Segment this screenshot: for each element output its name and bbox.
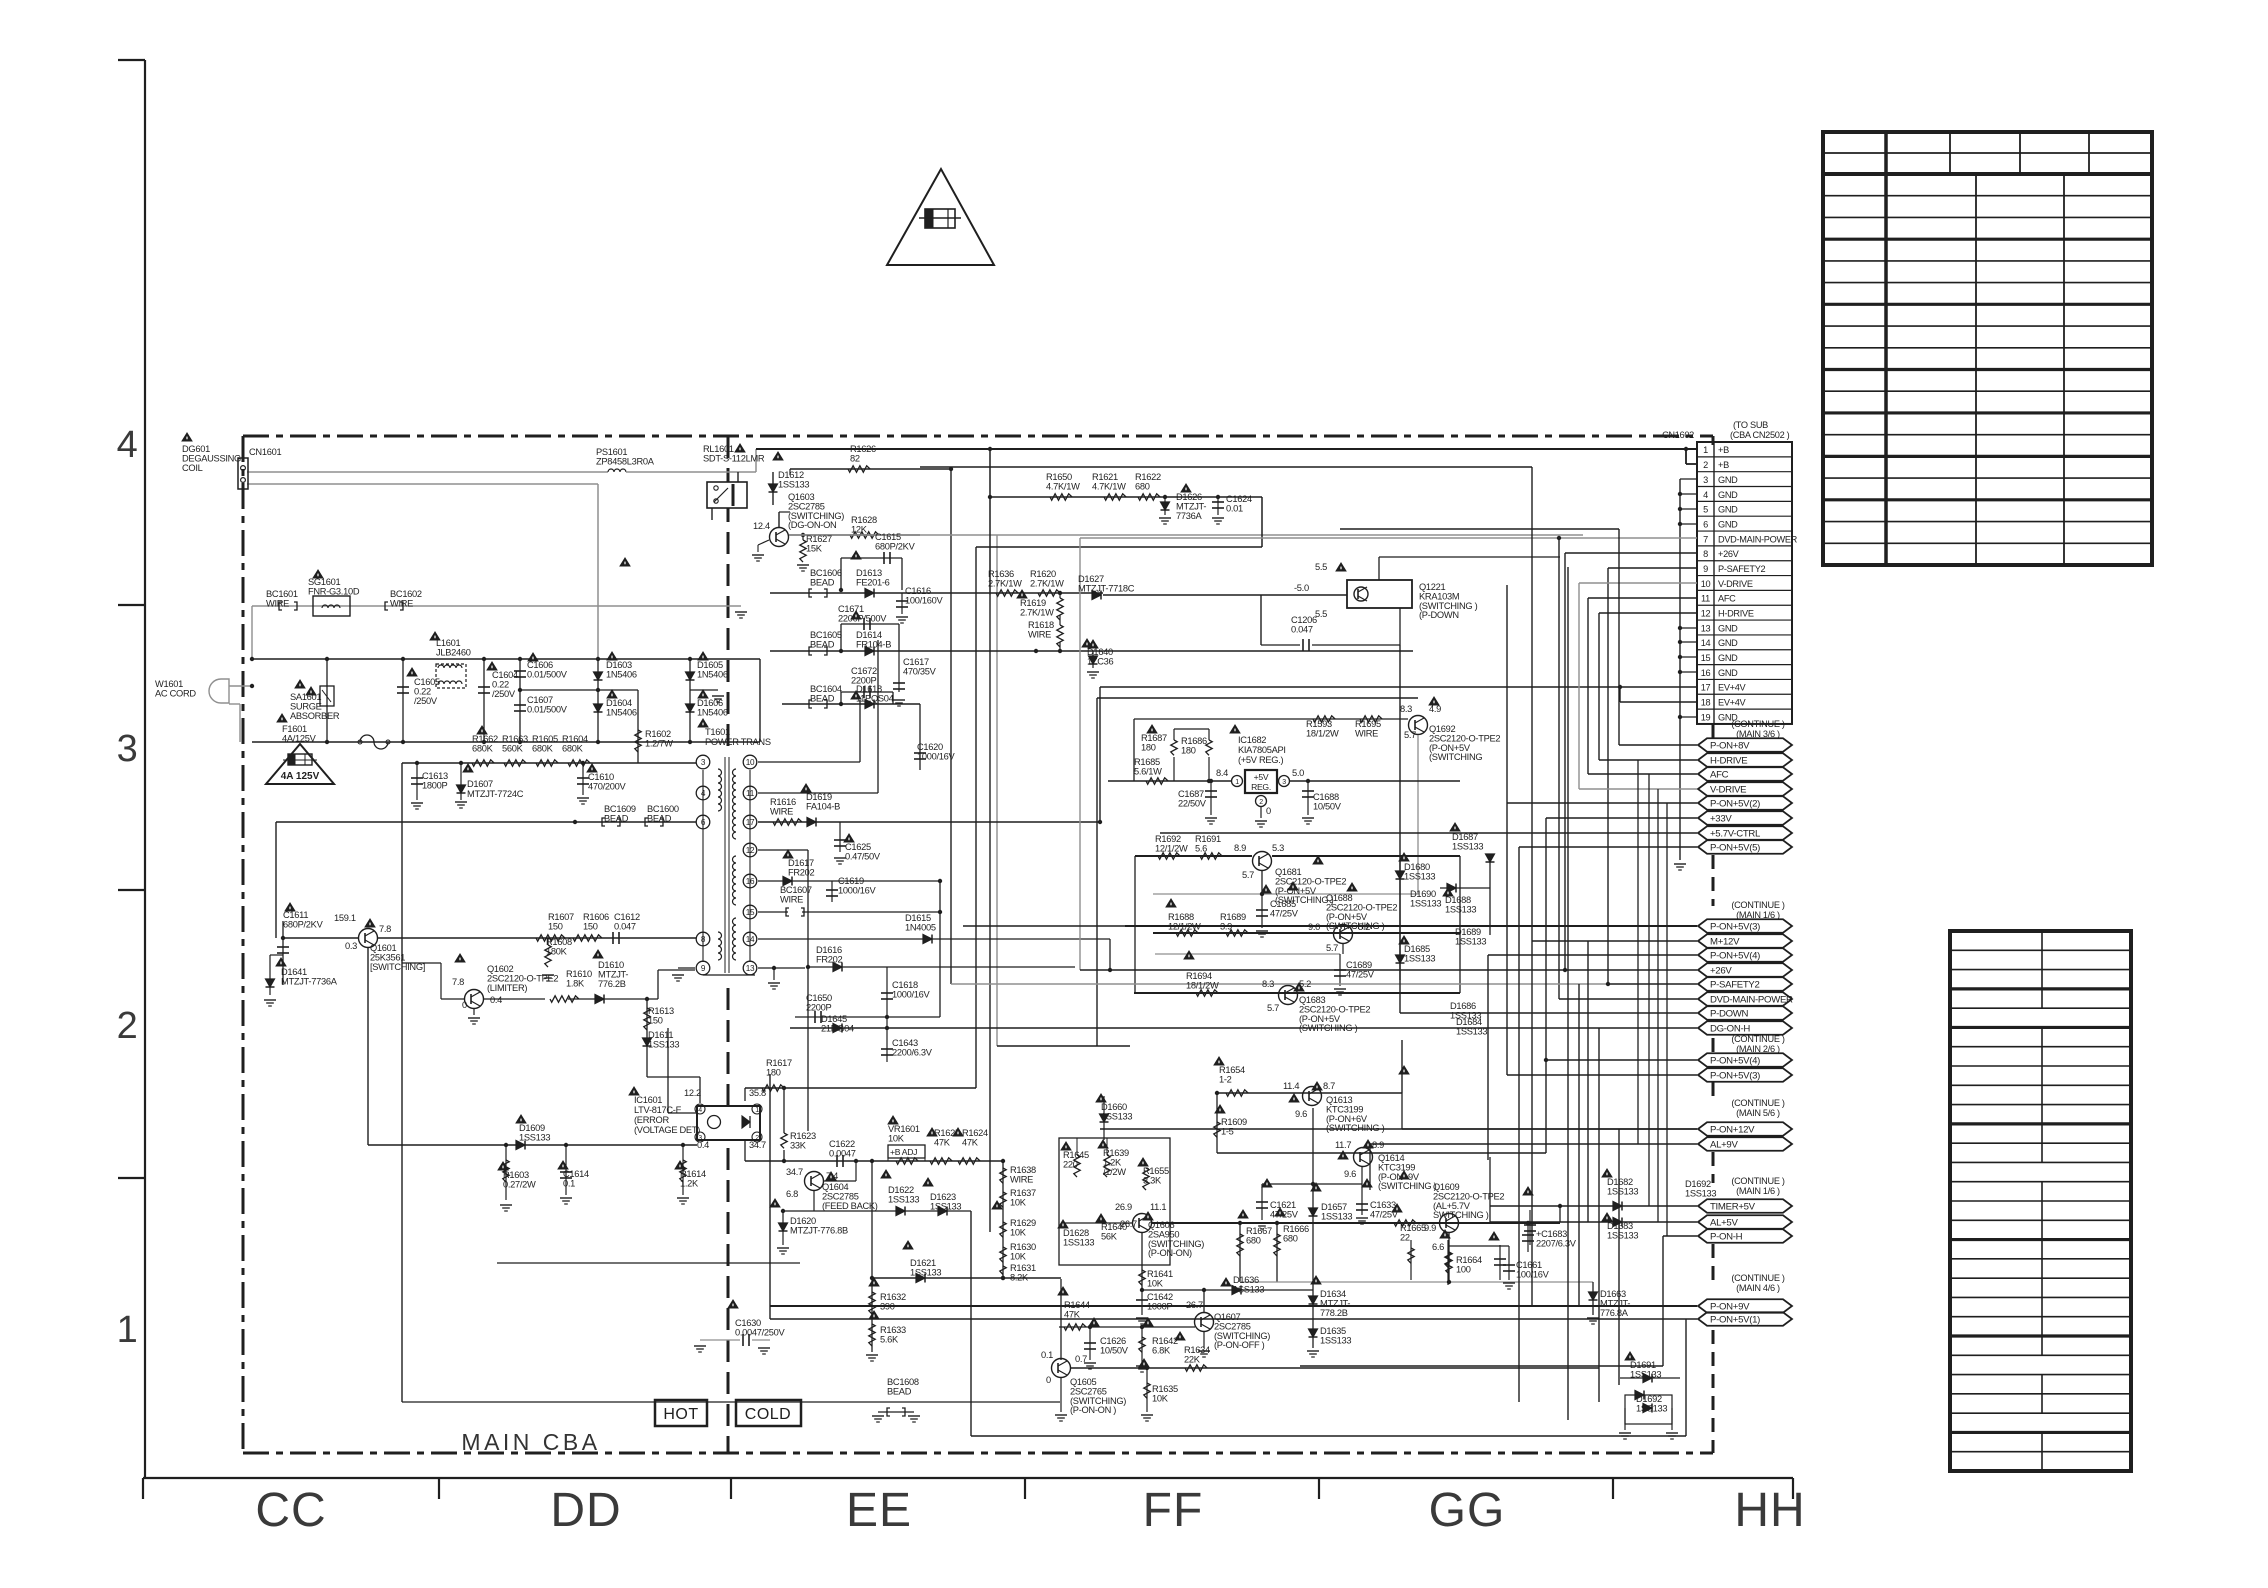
svg-text:1N5406: 1N5406 [606, 707, 637, 717]
svg-text:(CONTINUE ): (CONTINUE ) [1731, 1098, 1785, 1108]
svg-text:0.7: 0.7 [1075, 1354, 1087, 1364]
svg-text:560K: 560K [502, 743, 524, 753]
svg-text:150: 150 [648, 1015, 663, 1025]
svg-text:680: 680 [1283, 1233, 1298, 1243]
svg-text:3.3K: 3.3K [1143, 1175, 1162, 1185]
svg-text:11.1: 11.1 [1150, 1202, 1166, 1212]
svg-text:26.9: 26.9 [1115, 1202, 1132, 1212]
svg-text:10K: 10K [888, 1133, 905, 1143]
svg-text:8.2K: 8.2K [1010, 1272, 1029, 1282]
svg-text:1SS133: 1SS133 [1101, 1111, 1132, 1121]
svg-text:(DG-ON-ON: (DG-ON-ON [788, 520, 836, 530]
svg-text:1SS133: 1SS133 [910, 1267, 941, 1277]
svg-text:GND: GND [1718, 490, 1738, 500]
svg-text:18/1/2W: 18/1/2W [1306, 728, 1339, 738]
svg-text:WIRE: WIRE [1028, 629, 1051, 639]
svg-text:WIRE: WIRE [780, 894, 803, 904]
svg-text:M+12V: M+12V [1710, 936, 1740, 947]
svg-text:1SS133: 1SS133 [1404, 871, 1435, 881]
svg-text:680K: 680K [532, 743, 554, 753]
svg-text:+5.7V-CTRL: +5.7V-CTRL [1710, 828, 1761, 839]
svg-text:GND: GND [1718, 475, 1738, 485]
svg-text:1000P: 1000P [1147, 1301, 1172, 1311]
svg-text:1SS133: 1SS133 [1404, 953, 1435, 963]
svg-text:5.6: 5.6 [1195, 843, 1207, 853]
svg-text:1SS133: 1SS133 [1456, 1026, 1487, 1036]
svg-text:8.3: 8.3 [1400, 704, 1412, 714]
svg-text:4: 4 [117, 424, 138, 466]
svg-text:6.8K: 6.8K [1152, 1345, 1171, 1355]
svg-text:1SS133: 1SS133 [1607, 1230, 1638, 1240]
svg-text:DVD-MAIN-POWER: DVD-MAIN-POWER [1710, 994, 1793, 1005]
svg-text:(P-DOWN: (P-DOWN [1419, 610, 1459, 620]
svg-text:778.2B: 778.2B [1320, 1308, 1348, 1318]
svg-text:FR202: FR202 [816, 954, 843, 964]
svg-text:56K: 56K [1101, 1231, 1118, 1241]
svg-text:AFC: AFC [1718, 594, 1736, 604]
svg-text:10K: 10K [1010, 1197, 1027, 1207]
svg-text:BEAD: BEAD [810, 693, 835, 703]
svg-text:9.0: 9.0 [1308, 922, 1320, 932]
svg-text:11: 11 [1701, 594, 1710, 604]
svg-text:BEAD: BEAD [604, 813, 629, 823]
svg-text:10: 10 [746, 758, 755, 767]
svg-text:MTZJT-7736A: MTZJT-7736A [281, 976, 338, 986]
svg-text:1N4005: 1N4005 [905, 922, 936, 932]
svg-text:776.2B: 776.2B [598, 979, 626, 989]
svg-text:19: 19 [1701, 712, 1711, 722]
svg-text:CN1602: CN1602 [1662, 430, 1694, 440]
svg-text:12.4: 12.4 [753, 521, 770, 531]
svg-text:GND: GND [1718, 653, 1738, 663]
svg-text:10/50V: 10/50V [1313, 801, 1342, 811]
svg-text:FR104-B: FR104-B [856, 639, 891, 649]
svg-text:0: 0 [1046, 1375, 1051, 1385]
svg-text:(FEED BACK): (FEED BACK) [822, 1201, 878, 1211]
svg-text:(SWITCHING ): (SWITCHING ) [1326, 921, 1385, 931]
svg-text:/250V: /250V [492, 689, 516, 699]
svg-text:5.3: 5.3 [1272, 843, 1284, 853]
svg-text:AFC: AFC [1710, 769, 1729, 780]
svg-text:47K: 47K [934, 1137, 951, 1147]
svg-text:18/1/2W: 18/1/2W [1186, 980, 1219, 990]
svg-text:1000/16V: 1000/16V [917, 751, 956, 761]
svg-text:BEAD: BEAD [887, 1386, 912, 1396]
svg-text:34.7: 34.7 [749, 1140, 766, 1150]
svg-text:(SWITCHING: (SWITCHING [1429, 752, 1482, 762]
svg-text:1SS133: 1SS133 [1445, 904, 1476, 914]
svg-text:1000/16V: 1000/16V [838, 885, 877, 895]
svg-text:6.8: 6.8 [786, 1189, 798, 1199]
svg-text:(CBA CN2502 ): (CBA CN2502 ) [1730, 430, 1790, 440]
svg-text:12: 12 [1701, 608, 1711, 618]
svg-text:JLB2460: JLB2460 [436, 647, 471, 657]
svg-text:1SS133: 1SS133 [888, 1194, 919, 1204]
svg-text:SWITCHING ): SWITCHING ) [1433, 1210, 1489, 1220]
svg-text:8.7: 8.7 [1323, 1081, 1335, 1091]
svg-text:(CONTINUE ): (CONTINUE ) [1731, 1273, 1785, 1283]
svg-text:EV+4V: EV+4V [1718, 683, 1747, 693]
svg-text:35.8: 35.8 [749, 1088, 766, 1098]
svg-text:680P/2KV: 680P/2KV [875, 541, 916, 551]
svg-text:+26V: +26V [1710, 965, 1732, 976]
svg-text:LTV-817C-F: LTV-817C-F [634, 1105, 682, 1115]
svg-text:5: 5 [1703, 505, 1708, 515]
svg-text:5.5: 5.5 [1315, 562, 1327, 572]
svg-text:[SWITCHING]: [SWITCHING] [370, 962, 425, 972]
svg-text:0.0047/250V: 0.0047/250V [735, 1327, 786, 1337]
svg-text:0.1: 0.1 [563, 1178, 575, 1188]
svg-text:0.3: 0.3 [345, 941, 357, 951]
svg-text:680K: 680K [562, 743, 584, 753]
svg-text:11.4: 11.4 [1283, 1081, 1299, 1091]
svg-text:0: 0 [462, 1000, 467, 1010]
svg-text:1N5406: 1N5406 [606, 669, 637, 679]
svg-text:33K: 33K [790, 1140, 807, 1150]
svg-text:P-ON+5V(2): P-ON+5V(2) [1710, 798, 1760, 809]
svg-text:BEAD: BEAD [647, 813, 672, 823]
svg-text:47/25V: 47/25V [1270, 908, 1299, 918]
svg-text:DG-ON-H: DG-ON-H [1710, 1023, 1750, 1034]
svg-text:IC1601: IC1601 [634, 1095, 662, 1105]
svg-text:FNR-G3.10D: FNR-G3.10D [308, 586, 360, 596]
svg-text:(SWITCHING ): (SWITCHING ) [1299, 1023, 1358, 1033]
svg-text:CN1601: CN1601 [249, 447, 281, 457]
svg-text:/250V: /250V [414, 696, 438, 706]
svg-text:0.047: 0.047 [614, 921, 636, 931]
svg-text:(CONTINUE ): (CONTINUE ) [1731, 1176, 1785, 1186]
svg-text:(CONTINUE ): (CONTINUE ) [1731, 900, 1785, 910]
svg-text:0.01/500V: 0.01/500V [527, 704, 568, 714]
svg-text:2200P: 2200P [806, 1002, 831, 1012]
svg-text:WIRE: WIRE [390, 598, 413, 608]
svg-text:1SS133: 1SS133 [1607, 1186, 1638, 1196]
svg-text:22/50V: 22/50V [1178, 798, 1207, 808]
svg-text:1SS133: 1SS133 [1455, 936, 1486, 946]
svg-text:IC1682: IC1682 [1238, 735, 1266, 745]
svg-text:P-SAFETY2: P-SAFETY2 [1710, 979, 1760, 990]
svg-text:1: 1 [1703, 445, 1708, 455]
svg-text:1SS133: 1SS133 [519, 1132, 550, 1142]
svg-text:KIA7805API: KIA7805API [1238, 745, 1286, 755]
svg-text:0.1: 0.1 [1041, 1350, 1053, 1360]
svg-text:3: 3 [701, 758, 706, 767]
svg-text:1-5: 1-5 [1221, 1126, 1234, 1136]
svg-text:26.7: 26.7 [1186, 1300, 1203, 1310]
svg-text:WIRE: WIRE [266, 598, 289, 608]
svg-text:D1607: D1607 [467, 779, 493, 789]
svg-text:4.7K/1W: 4.7K/1W [1092, 481, 1126, 491]
svg-text:GND: GND [1718, 505, 1738, 515]
svg-text:FA104-B: FA104-B [806, 801, 840, 811]
svg-text:5.2: 5.2 [1358, 922, 1370, 932]
svg-text:REG.: REG. [1251, 782, 1271, 792]
svg-text:9.6: 9.6 [1344, 1169, 1356, 1179]
svg-text:(MAIN 4/6 ): (MAIN 4/6 ) [1736, 1283, 1780, 1293]
svg-text:0.47/50V: 0.47/50V [845, 851, 881, 861]
svg-text:5.7: 5.7 [1267, 1003, 1279, 1013]
svg-text:1SS133: 1SS133 [1452, 841, 1483, 851]
svg-text:HH: HH [1734, 1484, 1805, 1537]
svg-text:TIMER+5V: TIMER+5V [1710, 1201, 1756, 1212]
svg-text:7.8: 7.8 [452, 977, 464, 987]
svg-text:SDT-S-112LMR: SDT-S-112LMR [703, 453, 765, 463]
svg-text:47K: 47K [1064, 1309, 1081, 1319]
svg-text:P-ON+9V: P-ON+9V [1710, 1301, 1750, 1312]
svg-text:(CONTINUE ): (CONTINUE ) [1731, 1034, 1785, 1044]
svg-text:+5V: +5V [1254, 772, 1269, 782]
svg-text:12K: 12K [851, 524, 868, 534]
svg-text:P-ON+5V(4): P-ON+5V(4) [1710, 1055, 1760, 1066]
svg-text:(ERROR: (ERROR [634, 1115, 669, 1125]
svg-text:2: 2 [117, 1005, 138, 1047]
svg-text:P-ON+5V(3): P-ON+5V(3) [1710, 1070, 1760, 1081]
svg-text:150: 150 [583, 921, 598, 931]
svg-text:2200P/500V: 2200P/500V [838, 613, 887, 623]
svg-text:P-ON-H: P-ON-H [1710, 1231, 1743, 1242]
svg-text:GND: GND [1718, 668, 1738, 678]
svg-text:100/16V: 100/16V [1516, 1269, 1550, 1279]
svg-text:+B: +B [1718, 445, 1729, 455]
svg-text:10K: 10K [1010, 1251, 1027, 1261]
svg-text:(MAIN 1/6 ): (MAIN 1/6 ) [1736, 1186, 1780, 1196]
svg-text:2: 2 [1703, 460, 1708, 470]
svg-text:15: 15 [1701, 653, 1711, 663]
svg-text:1800P: 1800P [422, 780, 447, 790]
svg-text:MTZJT-7718C: MTZJT-7718C [1078, 583, 1135, 593]
svg-text:5.7: 5.7 [1326, 943, 1338, 953]
svg-text:P-ON+5V(5): P-ON+5V(5) [1710, 842, 1760, 853]
svg-text:GND: GND [1718, 638, 1738, 648]
svg-text:2.7K/1W: 2.7K/1W [1030, 578, 1064, 588]
svg-text:18: 18 [1701, 698, 1711, 708]
svg-text:680: 680 [1246, 1235, 1261, 1245]
svg-text:COIL: COIL [182, 463, 203, 473]
svg-text:34.7: 34.7 [786, 1167, 803, 1177]
svg-text:11.7: 11.7 [1335, 1140, 1351, 1150]
svg-text:16: 16 [1701, 668, 1711, 678]
svg-text:3.9: 3.9 [1220, 921, 1232, 931]
svg-text:P-ON+8V: P-ON+8V [1710, 740, 1750, 751]
svg-text:1.2/7W: 1.2/7W [645, 738, 673, 748]
svg-text:P-DOWN: P-DOWN [1710, 1008, 1749, 1019]
svg-text:10: 10 [1701, 579, 1711, 589]
svg-text:5.0: 5.0 [1292, 768, 1304, 778]
svg-text:ABSORBER: ABSORBER [290, 711, 340, 721]
svg-text:17: 17 [1701, 683, 1711, 693]
svg-text:4: 4 [698, 1107, 702, 1114]
svg-text:(CONTINUE ): (CONTINUE ) [1731, 719, 1785, 729]
svg-text:2207/6.3V: 2207/6.3V [1536, 1238, 1577, 1248]
svg-text:150: 150 [548, 921, 563, 931]
svg-text:10/50V: 10/50V [1100, 1345, 1129, 1355]
svg-text:1ZC36: 1ZC36 [1087, 656, 1114, 666]
svg-text:14: 14 [1701, 638, 1711, 648]
svg-text:(+5V REG.): (+5V REG.) [1238, 755, 1284, 765]
svg-text:MTZJT-7724C: MTZJT-7724C [467, 789, 524, 799]
svg-text:-5.0: -5.0 [1294, 583, 1309, 593]
svg-text:4.7K/1W: 4.7K/1W [1046, 481, 1080, 491]
svg-text:EV+4V: EV+4V [1718, 698, 1747, 708]
svg-text:AL+9V: AL+9V [1710, 1139, 1738, 1150]
svg-text:6.6: 6.6 [1432, 1242, 1444, 1252]
svg-text:12/1/2W: 12/1/2W [1168, 921, 1201, 931]
svg-text:180: 180 [766, 1067, 781, 1077]
svg-text:GND: GND [1718, 519, 1738, 529]
svg-text:680: 680 [1135, 481, 1150, 491]
svg-text:10K: 10K [1152, 1393, 1169, 1403]
svg-text:CC: CC [255, 1484, 326, 1537]
svg-text:1.8K: 1.8K [566, 978, 585, 988]
svg-text:8.4: 8.4 [1216, 768, 1228, 778]
svg-text:3: 3 [1703, 475, 1708, 485]
svg-text:ZP8458L3R0A: ZP8458L3R0A [596, 456, 655, 466]
svg-text:+B: +B [1718, 460, 1729, 470]
svg-text:(MAIN 5/6 ): (MAIN 5/6 ) [1736, 1108, 1780, 1118]
svg-text:13: 13 [746, 964, 755, 973]
svg-text:P-ON+5V(3): P-ON+5V(3) [1710, 921, 1760, 932]
svg-text:3: 3 [1282, 779, 1286, 786]
svg-text:P-ON+12V: P-ON+12V [1710, 1124, 1755, 1135]
svg-text:8.3: 8.3 [1262, 979, 1274, 989]
svg-text:P-SAFETY2: P-SAFETY2 [1718, 564, 1766, 574]
svg-text:(VOLTAGE DET): (VOLTAGE DET) [634, 1125, 700, 1135]
svg-text:1SS133: 1SS133 [1636, 1403, 1667, 1413]
svg-text:WIRE: WIRE [1355, 728, 1378, 738]
svg-text:159.1: 159.1 [334, 913, 356, 923]
svg-text:BEAD: BEAD [810, 639, 835, 649]
svg-text:0.047: 0.047 [1291, 624, 1313, 634]
svg-text:1SS133: 1SS133 [930, 1201, 961, 1211]
svg-text:4A/125V: 4A/125V [282, 733, 317, 743]
svg-text:9.9: 9.9 [1424, 1223, 1436, 1233]
svg-text:22K: 22K [1184, 1354, 1201, 1364]
svg-text:(SWITCHING ): (SWITCHING ) [1326, 1123, 1385, 1133]
svg-text:H-DRIVE: H-DRIVE [1710, 755, 1747, 766]
svg-text:220: 220 [1063, 1159, 1078, 1169]
svg-text:AL+5V: AL+5V [1710, 1217, 1738, 1228]
svg-text:9: 9 [701, 964, 706, 973]
svg-text:1N5406: 1N5406 [697, 669, 728, 679]
svg-text:3: 3 [117, 728, 138, 770]
svg-text:8: 8 [1703, 549, 1708, 559]
svg-text:HOT: HOT [663, 1406, 698, 1423]
svg-text:1SS133: 1SS133 [1321, 1211, 1352, 1221]
svg-text:0.27/2W: 0.27/2W [503, 1179, 536, 1189]
svg-text:1: 1 [117, 1309, 138, 1351]
svg-text:/1/2W: /1/2W [1103, 1167, 1126, 1177]
svg-text:9.6: 9.6 [1295, 1109, 1307, 1119]
svg-text:2: 2 [1259, 799, 1263, 806]
svg-text:FE201-6: FE201-6 [856, 577, 890, 587]
svg-text:1SS133: 1SS133 [778, 479, 809, 489]
svg-text:5.7: 5.7 [1242, 870, 1254, 880]
svg-text:1SS133: 1SS133 [1410, 898, 1441, 908]
svg-text:470/200V: 470/200V [588, 781, 627, 791]
svg-text:5.7: 5.7 [1404, 730, 1416, 740]
svg-text:180K: 180K [546, 946, 568, 956]
svg-text:9: 9 [1703, 564, 1708, 574]
svg-text:0.01: 0.01 [1226, 503, 1243, 513]
svg-text:V-DRIVE: V-DRIVE [1718, 579, 1753, 589]
svg-text:+33V: +33V [1710, 813, 1732, 824]
svg-text:(P-ON-ON ): (P-ON-ON ) [1070, 1405, 1116, 1415]
svg-text:10K: 10K [1010, 1227, 1027, 1237]
svg-text:776.8A: 776.8A [1600, 1308, 1629, 1318]
svg-text:(LIMITER): (LIMITER) [487, 983, 527, 993]
svg-text:680P/2KV: 680P/2KV [283, 919, 324, 929]
svg-text:1SS133: 1SS133 [648, 1039, 679, 1049]
svg-text:13: 13 [1701, 623, 1711, 633]
svg-text:BEAD: BEAD [810, 577, 835, 587]
svg-text:0.0047: 0.0047 [829, 1148, 856, 1158]
svg-text:DD: DD [550, 1484, 621, 1537]
svg-text:P-ON+5V(1): P-ON+5V(1) [1710, 1314, 1760, 1325]
svg-text:0.4: 0.4 [490, 995, 502, 1005]
svg-text:1SS133: 1SS133 [1063, 1237, 1094, 1247]
svg-text:8.9: 8.9 [1234, 843, 1246, 853]
svg-text:(P-ON-OFF ): (P-ON-OFF ) [1214, 1340, 1265, 1350]
svg-text:COLD: COLD [745, 1406, 791, 1423]
svg-text:7.8: 7.8 [379, 924, 391, 934]
svg-text:390: 390 [880, 1301, 895, 1311]
svg-text:7: 7 [1703, 534, 1708, 544]
svg-text:47/25V: 47/25V [1346, 969, 1375, 979]
svg-text:H-DRIVE: H-DRIVE [1718, 608, 1754, 618]
svg-text:GND: GND [1718, 623, 1738, 633]
svg-text:0: 0 [1266, 806, 1271, 816]
svg-text:82: 82 [850, 453, 860, 463]
svg-text:1SS133: 1SS133 [1233, 1284, 1264, 1294]
svg-text:180: 180 [1141, 742, 1156, 752]
svg-text:(TO SUB: (TO SUB [1733, 420, 1768, 430]
svg-text:WIRE: WIRE [1010, 1174, 1033, 1184]
svg-text:1000/16V: 1000/16V [892, 989, 931, 999]
svg-text:11EQS04: 11EQS04 [856, 693, 894, 703]
svg-text:MAIN CBA: MAIN CBA [461, 1429, 600, 1455]
svg-text:V-DRIVE: V-DRIVE [1710, 784, 1746, 795]
svg-text:1.2K: 1.2K [680, 1178, 699, 1188]
svg-text:T1601: T1601 [705, 727, 730, 737]
svg-text:1: 1 [755, 1107, 759, 1114]
svg-text:6: 6 [1703, 519, 1708, 529]
svg-text:2200/6.3V: 2200/6.3V [892, 1047, 933, 1057]
svg-text:15K: 15K [806, 543, 823, 553]
svg-text:(P-ON-ON): (P-ON-ON) [1148, 1248, 1192, 1258]
svg-text:1N5406: 1N5406 [697, 707, 728, 717]
svg-text:1SS133: 1SS133 [1320, 1335, 1351, 1345]
svg-text:4: 4 [1703, 490, 1708, 500]
svg-text:1: 1 [1235, 779, 1239, 786]
svg-text:FR202: FR202 [788, 867, 815, 877]
svg-text:FF: FF [1143, 1484, 1204, 1537]
svg-text:+26V: +26V [1718, 549, 1740, 559]
svg-text:5.6K: 5.6K [880, 1334, 899, 1344]
svg-text:470/35V: 470/35V [903, 666, 937, 676]
svg-text:21DG04: 21DG04 [821, 1023, 854, 1033]
svg-text:4A 125V: 4A 125V [281, 771, 320, 782]
svg-text:12.2: 12.2 [684, 1088, 701, 1098]
svg-text:MTZJT-776.8B: MTZJT-776.8B [790, 1225, 848, 1235]
svg-text:22: 22 [1400, 1232, 1410, 1242]
svg-text:100/160V: 100/160V [905, 595, 944, 605]
svg-text:EE: EE [846, 1484, 912, 1537]
svg-text:1SS133: 1SS133 [1685, 1188, 1716, 1198]
svg-text:7736A: 7736A [1176, 511, 1202, 521]
svg-text:1-2: 1-2 [1219, 1074, 1232, 1084]
svg-text:180: 180 [1181, 745, 1196, 755]
svg-text:WIRE: WIRE [770, 806, 793, 816]
